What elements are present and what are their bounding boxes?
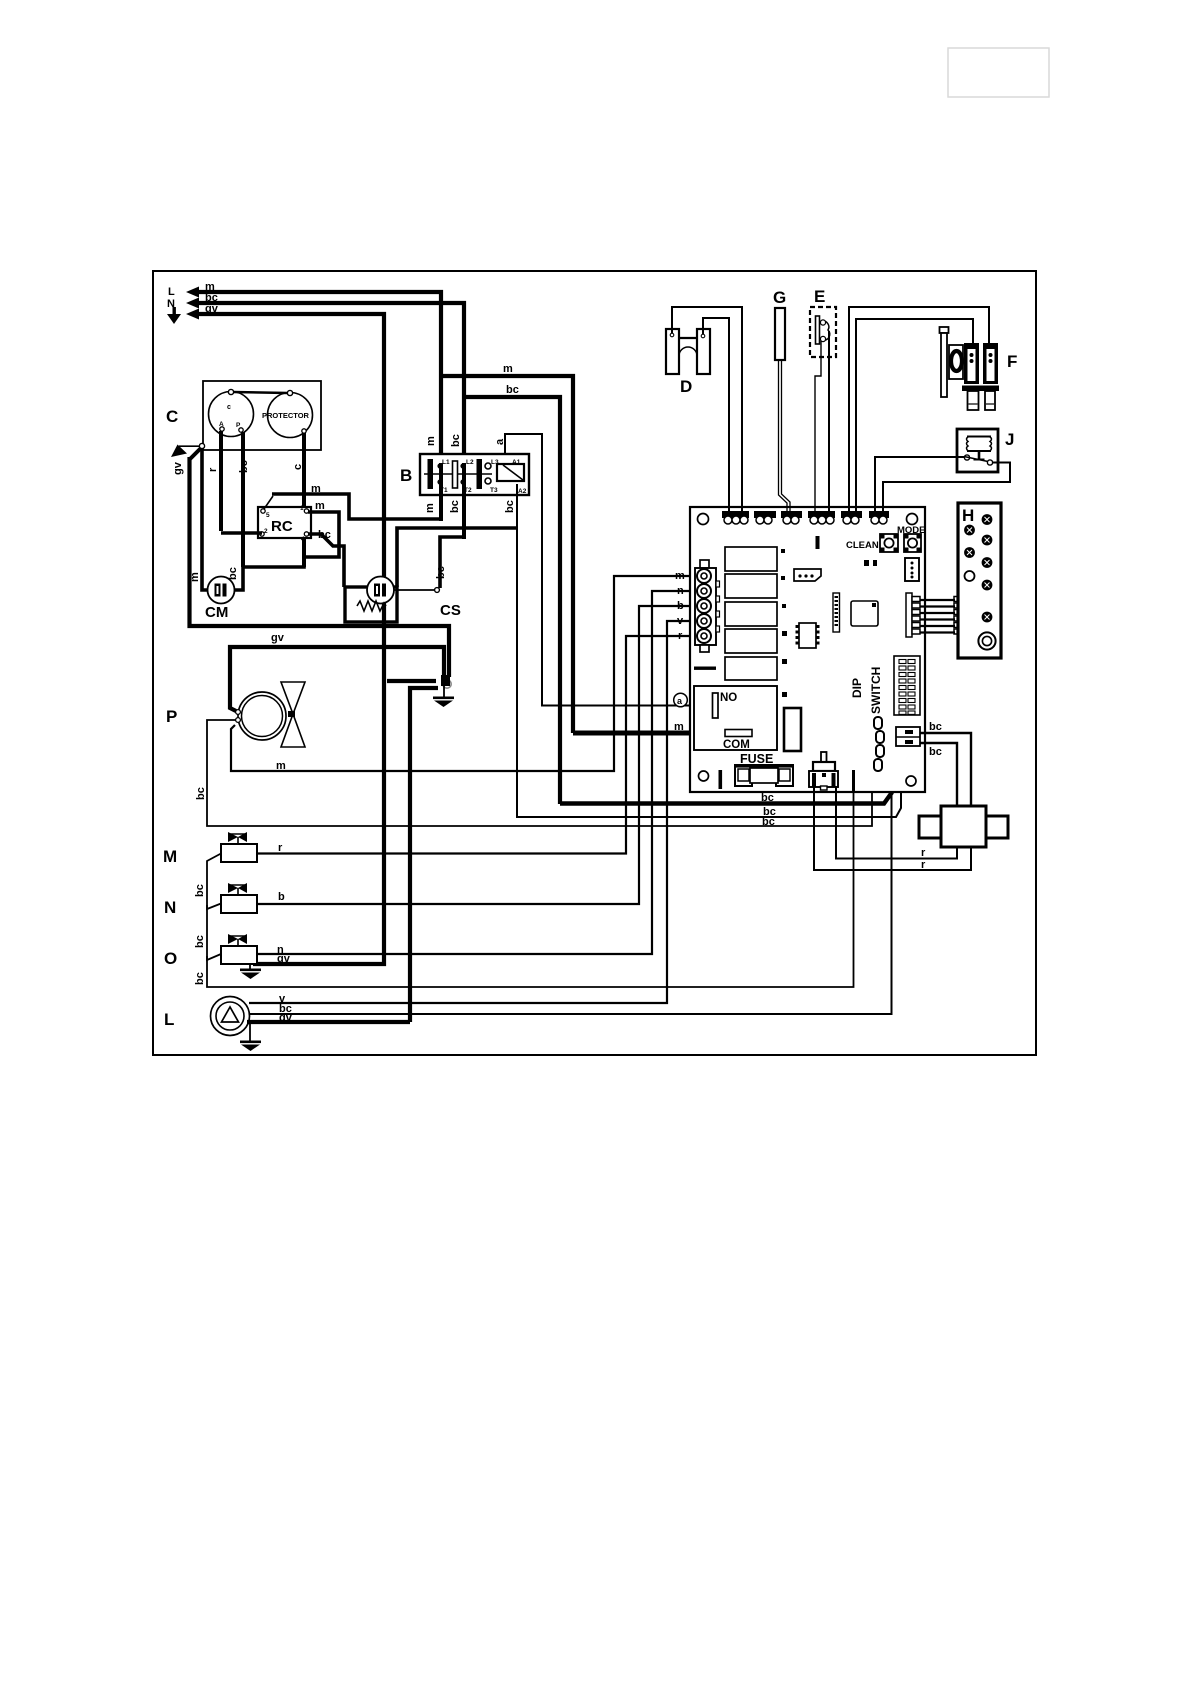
- wire bc valve chain: [207, 854, 221, 910]
- svg-text:r: r: [921, 859, 926, 871]
- svg-text:m: m: [675, 570, 685, 582]
- svg-text:A2: A2: [518, 488, 527, 495]
- svg-text:bc: bc: [506, 384, 519, 396]
- svg-text:bc: bc: [194, 935, 206, 948]
- thermistor CS with heater: [345, 587, 397, 622]
- IC SIP: [833, 593, 840, 632]
- wire bc CS right to B T2: [435, 588, 440, 593]
- 2pin connector bc: [896, 727, 920, 746]
- connector CN4: [808, 511, 835, 524]
- two pads: [864, 560, 869, 566]
- connector 4pin right: [905, 558, 919, 581]
- connector CN2: [754, 511, 776, 524]
- wire m CM left: [202, 448, 208, 590]
- relay RC: [258, 507, 311, 538]
- wire m to COM: [573, 731, 730, 736]
- wire bc mains: [197, 303, 464, 463]
- svg-text:DIP: DIP: [850, 678, 864, 698]
- svg-text:b: b: [677, 600, 684, 612]
- wire bc CS box to channel: [397, 528, 517, 587]
- comb connector left: [906, 593, 920, 637]
- wire bc t2: [920, 743, 957, 806]
- DIP switch: [850, 656, 920, 715]
- svg-text:bc: bc: [195, 787, 207, 800]
- svg-text:m: m: [276, 760, 286, 772]
- wire D1: [672, 307, 742, 513]
- svg-text:bc: bc: [194, 884, 206, 897]
- svg-text:m: m: [674, 721, 684, 733]
- ground symbol: [443, 686, 445, 697]
- wire E1: [815, 341, 821, 513]
- wire r from A: [219, 431, 223, 531]
- diagram frame: [153, 271, 1036, 1055]
- wire J1: [875, 457, 964, 513]
- connector CN5: [841, 511, 862, 524]
- svg-text:CLEAN: CLEAN: [846, 540, 879, 551]
- svg-text:c: c: [227, 404, 231, 411]
- svg-text:m: m: [311, 483, 321, 495]
- svg-text:bc: bc: [238, 460, 250, 473]
- IC QFP: [851, 601, 878, 626]
- svg-text:r: r: [678, 630, 683, 642]
- wire r t1: [836, 786, 957, 859]
- capacitor c: [209, 392, 254, 437]
- connector CN1: [722, 511, 749, 524]
- svg-text:gv: gv: [271, 632, 285, 644]
- contactor B: [420, 454, 529, 495]
- IC DIP: [796, 623, 820, 648]
- component F: [940, 327, 1018, 410]
- svg-text:bc: bc: [194, 972, 206, 985]
- wire F1: [856, 319, 973, 513]
- transformer block: [919, 806, 1008, 847]
- wire RC2 to cap A: [221, 531, 262, 535]
- svg-text:PROTECTOR: PROTECTOR: [262, 411, 310, 420]
- svg-text:E: E: [814, 287, 825, 306]
- component J: [957, 429, 1014, 472]
- svg-text:M: M: [163, 847, 177, 866]
- svg-text:NO: NO: [720, 692, 737, 704]
- svg-text:5: 5: [266, 512, 270, 519]
- wire r t2: [814, 786, 971, 870]
- ground at valve O: [249, 964, 251, 969]
- svg-text:r: r: [207, 467, 219, 472]
- svg-text:m: m: [503, 363, 513, 375]
- svg-text:O: O: [164, 949, 177, 968]
- svg-text:bc: bc: [504, 500, 516, 513]
- svg-text:4: 4: [301, 536, 305, 543]
- svg-text:G: G: [773, 288, 786, 307]
- wire bc pump riser: [250, 792, 892, 1014]
- wire a coil: [505, 434, 713, 706]
- svg-text:H: H: [962, 506, 974, 525]
- connector 3pin mid: [794, 569, 821, 581]
- svg-text:T3: T3: [490, 487, 498, 494]
- connector staircase wires m n b v r: [249, 591, 704, 1003]
- mains entry arrows: [167, 287, 199, 325]
- wire T2 bc: [462, 463, 466, 539]
- svg-text:bc: bc: [761, 792, 774, 804]
- wire gv motor: [230, 647, 444, 711]
- wire bc from P: [241, 432, 245, 567]
- svg-text:n: n: [677, 585, 684, 597]
- svg-text:bc: bc: [449, 500, 461, 513]
- connector CN3: [781, 511, 802, 524]
- wire stub fuse side: [852, 770, 855, 792]
- pill marks: [874, 717, 884, 771]
- relay bank: [725, 547, 777, 680]
- capacitor box C: [203, 381, 321, 450]
- fan blades: [281, 682, 305, 747]
- wire G: [779, 360, 788, 513]
- svg-text:m: m: [315, 500, 325, 512]
- svg-text:FUSE: FUSE: [740, 752, 773, 766]
- capacitor vertical: [784, 708, 801, 751]
- wire m mains: [197, 292, 441, 463]
- svg-text:b: b: [278, 891, 285, 903]
- 5-pin connector: [695, 560, 720, 652]
- wire n: [257, 591, 704, 954]
- wire J2: [883, 463, 1010, 514]
- PCB board: [690, 507, 925, 792]
- wire gv pump: [247, 1020, 410, 1024]
- wire D2: [703, 318, 729, 513]
- svg-text:bc: bc: [929, 721, 942, 733]
- svg-text:L2: L2: [466, 459, 474, 466]
- wire bc A2 to channel: [517, 484, 901, 817]
- svg-text:1: 1: [300, 505, 304, 512]
- wire F2: [849, 307, 989, 513]
- wire c from protector: [302, 433, 306, 567]
- svg-text:2: 2: [264, 528, 268, 535]
- svg-text:bc: bc: [929, 746, 942, 758]
- wire RC4 bc: [308, 534, 344, 587]
- wire bc motor: [207, 720, 872, 826]
- svg-text:L: L: [164, 1010, 174, 1029]
- pads: [781, 549, 787, 697]
- svg-text:C: C: [166, 407, 178, 426]
- connector H: [958, 503, 1001, 658]
- svg-text:gv: gv: [205, 303, 219, 315]
- wire m RC1: [304, 512, 339, 557]
- svg-text:J: J: [1005, 430, 1014, 449]
- svg-text:L: L: [168, 286, 175, 298]
- wire m RC5 to B T1: [264, 496, 273, 509]
- connector CN6: [869, 511, 889, 524]
- svg-text:bc: bc: [227, 567, 239, 580]
- wire bc branch to PCB: [464, 397, 560, 804]
- wire E2: [828, 331, 830, 513]
- svg-text:CS: CS: [440, 602, 461, 619]
- svg-text:m: m: [424, 503, 436, 513]
- wire bc t1: [920, 733, 971, 806]
- svg-text:D: D: [680, 377, 692, 396]
- svg-text:COM: COM: [723, 739, 750, 751]
- gv ground arrow at C: [199, 443, 204, 448]
- svg-text:gv: gv: [172, 461, 184, 475]
- thermistor CM: [208, 577, 235, 604]
- wire T1 m: [439, 463, 443, 521]
- coil A1A2: [497, 464, 524, 481]
- corner reference box: [948, 48, 1049, 97]
- svg-text:F: F: [1007, 352, 1017, 371]
- svg-text:B: B: [400, 466, 412, 485]
- comb connector right: [954, 593, 968, 637]
- svg-text:m: m: [425, 436, 437, 446]
- svg-text:CM: CM: [205, 604, 228, 621]
- svg-text:c: c: [292, 464, 304, 470]
- ground junction: [387, 679, 436, 683]
- label I: [816, 536, 820, 549]
- jumper bar: [694, 667, 716, 670]
- svg-text:r: r: [278, 842, 283, 854]
- wire v: [249, 621, 704, 1003]
- wire gv enclosure: [190, 457, 450, 677]
- bar: [719, 770, 723, 789]
- svg-text:bc: bc: [762, 816, 775, 828]
- svg-text:gv: gv: [277, 953, 291, 965]
- wire bc thick to PCB: [560, 791, 892, 804]
- svg-text:RC: RC: [271, 518, 293, 535]
- wires comb: [920, 600, 955, 633]
- wire gv mains: [197, 314, 384, 964]
- svg-text:bc: bc: [318, 529, 331, 541]
- svg-text:P: P: [166, 707, 177, 726]
- protector: [268, 393, 313, 438]
- wire bc CM chain: [234, 557, 304, 590]
- svg-text:N: N: [164, 898, 176, 917]
- wire b: [257, 606, 704, 904]
- component D: [666, 329, 710, 396]
- svg-text:SWITCH: SWITCH: [869, 667, 883, 714]
- svg-text:L1: L1: [442, 459, 450, 466]
- svg-text:gv: gv: [279, 1012, 293, 1024]
- wire cap top link: [233, 392, 288, 393]
- wire r: [257, 636, 704, 854]
- wire m motor: [231, 576, 704, 771]
- svg-text:bc: bc: [450, 434, 462, 447]
- svg-text:r: r: [921, 847, 926, 859]
- relay NO COM: [694, 686, 777, 750]
- buzzer SW: [809, 752, 838, 790]
- svg-text:v: v: [677, 615, 684, 627]
- ground at pump: [249, 1024, 251, 1041]
- wire m branch to PCB: [441, 376, 573, 733]
